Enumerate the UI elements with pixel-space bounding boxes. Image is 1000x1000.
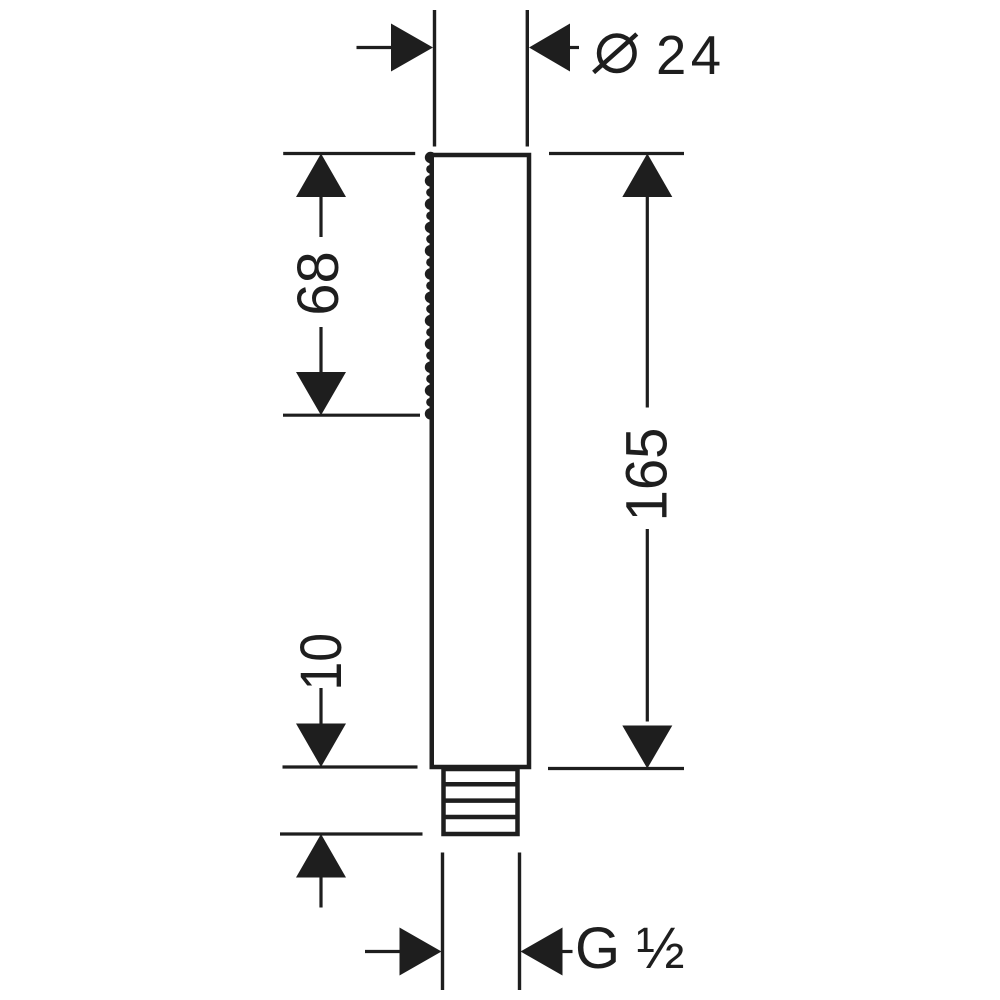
extension line 10 top <box>283 765 418 768</box>
arrow up (165 top) <box>622 154 672 198</box>
dimension line 10 stem below <box>319 877 322 908</box>
arrow right-pointing (G1/2 left) <box>400 928 442 976</box>
arrow tail (G1/2 right) <box>561 950 573 953</box>
extension line 68 bottom <box>283 414 420 417</box>
threaded connector outline <box>444 769 518 834</box>
arrow left-pointing (G1/2 right) <box>521 928 563 976</box>
svg-text:165: 165 <box>615 428 680 522</box>
dimension line 68 lower stem <box>319 327 322 373</box>
extension line top-left (diameter) <box>433 10 436 147</box>
thread line 1 <box>442 782 520 787</box>
extension line top-right (diameter) <box>526 10 529 147</box>
svg-text:68: 68 <box>286 251 351 316</box>
dimension line 165 lower stem <box>646 529 649 722</box>
thread line 3 <box>442 815 520 820</box>
extension line 68 top <box>283 152 415 155</box>
arrow tail (diameter, right side) <box>569 46 579 49</box>
body outline (hand shower) <box>432 155 529 767</box>
arrow up (10, pointing to bottom line) <box>296 834 346 878</box>
svg-text:10: 10 <box>288 633 353 690</box>
thread line 2 <box>442 798 520 803</box>
arrow down (68 bottom) <box>296 372 346 415</box>
arrow left-pointing (diameter, right side) <box>529 24 570 72</box>
diameter symbol slash <box>594 34 637 72</box>
svg-text:G ½: G ½ <box>575 916 685 981</box>
dimension line 68 upper stem <box>319 196 322 237</box>
extension line G1/2 right <box>518 853 521 991</box>
dimension line 165 upper stem <box>646 196 649 408</box>
arrow down (10, pointing to top line) <box>296 724 346 768</box>
arrow right-pointing (diameter, left side) <box>391 24 433 72</box>
dimension line 10 stem above <box>319 688 322 725</box>
knurled spray face dots <box>425 152 436 420</box>
arrow up (68 top) <box>296 154 346 198</box>
svg-text:24: 24 <box>656 25 726 86</box>
arrow tail (G1/2 left) <box>365 950 401 953</box>
arrow tail (diameter, left side) <box>357 46 393 49</box>
extension line 165 top <box>549 152 684 155</box>
extension line G1/2 left <box>441 853 444 991</box>
extension line 165 bottom <box>548 767 684 770</box>
arrow down (165 bottom) <box>622 726 672 769</box>
diameter symbol circle <box>599 35 635 70</box>
extension line 10 bottom <box>280 832 423 835</box>
